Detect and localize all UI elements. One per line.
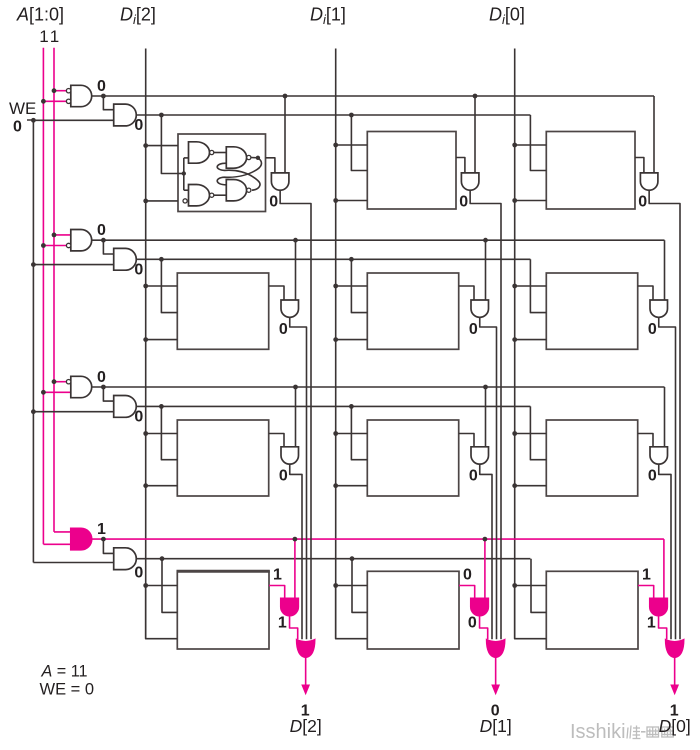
junction data top row2 col2 — [333, 284, 338, 289]
wire data tap bottom row3 col2 — [336, 485, 368, 487]
wire read wordline drop row1 col2 — [474, 96, 476, 173]
svg-text:0: 0 — [134, 117, 143, 134]
wire write enable into cell row3 col1 — [161, 406, 177, 459]
junction write wordline row3 col2 — [349, 404, 354, 409]
wire data tap top row2 col2 — [336, 285, 368, 287]
decoder AND gate row3 — [71, 376, 92, 397]
output OR gate D[2] — [296, 639, 315, 658]
wire read gate output to bitline row2 col1 — [290, 317, 307, 639]
wire A0 to row3 decoder top input — [54, 381, 66, 383]
junction data top row1 col1 — [143, 143, 148, 148]
junction data top row4 col2 — [333, 583, 338, 588]
read AND gate row2 col3 — [650, 300, 668, 317]
junction data bottom row2 col1 — [143, 337, 148, 342]
read AND gate row1 col2 — [461, 173, 479, 190]
decoder AND gate row1 — [71, 85, 92, 106]
wire read gate output to bitline row1 col1 — [280, 190, 311, 639]
junction write wordline row4 col2 — [350, 556, 355, 561]
wire data tap top row3 col2 — [336, 433, 368, 435]
latch internal N2 output bubble — [210, 193, 214, 197]
junction read wordline row3 col1 — [293, 385, 298, 390]
junction write wordline row4 col1 — [160, 556, 165, 561]
junction read wordline row2 col1 — [293, 238, 298, 243]
write wordline row2 — [136, 258, 530, 260]
latch internal: N2 to N4 wire — [214, 194, 227, 196]
wire data tap bottom row1 col2 — [336, 200, 368, 202]
latch internal N1 output bubble — [210, 150, 214, 154]
junction data top row3 col2 — [333, 431, 338, 436]
svg-text:0: 0 — [134, 409, 143, 426]
junction on WE row3 — [31, 409, 36, 414]
wire data tap bottom row2 col1 — [146, 339, 178, 341]
svg-text:0: 0 — [468, 615, 477, 632]
wire WE to row3 gate — [33, 411, 113, 413]
write wordline row4 — [136, 558, 530, 560]
junction on A0 row2 — [52, 233, 57, 238]
read AND gate row4 col1 — [281, 598, 299, 615]
svg-text:1: 1 — [273, 567, 282, 584]
svg-text:0: 0 — [463, 567, 472, 584]
write wordline row1 — [136, 114, 530, 116]
wire A1 to row2 decoder bottom input — [43, 245, 66, 247]
wire read wordline drop row4 col3 — [663, 539, 665, 598]
junction data top row2 col3 — [512, 284, 517, 289]
latch cell row1 col3 — [546, 132, 635, 210]
junction data top row3 col1 — [143, 431, 148, 436]
svg-text:WE: WE — [9, 99, 36, 118]
latch cell row3 col1 — [177, 420, 268, 496]
svg-text:0: 0 — [97, 222, 106, 239]
wire read gate output to bitline row3 col1 — [290, 464, 302, 639]
wire A0 into row4 decoder (elbow) — [54, 531, 71, 533]
read wordline row2 — [92, 239, 665, 241]
wire decoder to WE gate row1 — [103, 96, 113, 110]
svg-text:WE = 0: WE = 0 — [40, 681, 95, 699]
output arrow D[2] — [301, 658, 310, 696]
wire read gate output to bitline row2 col2 — [480, 317, 497, 639]
svg-text:Di[2]: Di[2] — [120, 5, 156, 28]
wire cell output row4 col1 — [269, 586, 285, 599]
wire A0 to row1 decoder top input — [54, 90, 66, 92]
read AND gate row3 col3 — [650, 447, 668, 464]
junction decoder output row3 — [101, 385, 106, 390]
wire data tap bottom row1 col3 — [515, 200, 547, 202]
junction data bottom row1 col2 — [333, 198, 338, 203]
latch cell row3 col3 — [546, 420, 637, 496]
wire cell output row2 col3 — [638, 286, 653, 300]
wire cell output row4 col2 — [459, 586, 475, 599]
svg-text:0: 0 — [134, 565, 143, 582]
svg-text:D[0]: D[0] — [659, 716, 691, 736]
wire decoder to WE gate row3 — [103, 387, 113, 401]
latch internal: Q junction — [256, 156, 260, 160]
wire A1 to row3 decoder bottom input — [43, 391, 70, 393]
wire write enable into cell row3 col3 — [530, 406, 546, 459]
junction data bottom row1 col1 — [143, 199, 148, 204]
wire A1 into row4 decoder (elbow) — [43, 543, 70, 545]
svg-text:D[2]: D[2] — [290, 716, 322, 736]
wire read gate output to OR row4 col1 — [290, 616, 298, 640]
svg-text:0: 0 — [279, 468, 288, 485]
wire read wordline drop row1 col3 — [653, 96, 655, 173]
output arrow D[1] — [491, 658, 500, 696]
svg-text:0: 0 — [269, 194, 278, 211]
svg-text:Isshiki: Isshiki — [570, 721, 626, 743]
latch internal: enable entry — [178, 173, 184, 175]
svg-text:1: 1 — [278, 615, 287, 632]
junction on A1 row3 — [41, 390, 46, 395]
latch cell row4 col2 — [367, 571, 459, 649]
wire read wordline drop row2 col2 — [485, 240, 487, 300]
svg-text:A = 11: A = 11 — [41, 663, 88, 681]
junction read wordline row2 col2 — [483, 238, 488, 243]
svg-text:A[1:0]: A[1:0] — [16, 5, 64, 25]
watermark glyph 3 — [662, 727, 674, 737]
wire read gate output to bitline row1 col2 — [470, 190, 501, 639]
junction on A0 row3 — [52, 379, 57, 384]
wire data line end into cell row4 col2 — [336, 586, 368, 639]
svg-text:Di[1]: Di[1] — [310, 5, 346, 28]
write-enable AND gate row1 — [114, 104, 137, 126]
junction data bottom row3 col2 — [333, 483, 338, 488]
wire cell output row2 col1 — [269, 286, 284, 300]
wire cell output row3 col1 — [269, 434, 284, 447]
latch internal NAND N3 (Q gate) — [226, 147, 246, 168]
svg-text:1: 1 — [97, 521, 106, 538]
junction data bottom row2 col3 — [512, 337, 517, 342]
read AND gate row4 col2 — [471, 598, 489, 615]
svg-text:0: 0 — [459, 194, 468, 211]
wire write enable into cell row3 col2 — [351, 406, 367, 459]
wire data tap bottom row3 col1 — [146, 485, 178, 487]
wire WE to row4 gate (elbow) — [33, 562, 113, 564]
svg-text:D[1]: D[1] — [480, 716, 512, 736]
latch cell row4 col1 — [177, 571, 270, 649]
wire read gate output to bitline row3 col2 — [480, 464, 492, 639]
wire decoder to WE gate row2 — [103, 240, 113, 254]
latch internal N2 input bubble — [183, 199, 187, 203]
latch internal: enable to N1 — [184, 157, 189, 159]
wire read gate output to bitline row2 col3 — [659, 317, 676, 639]
write-enable AND gate row2 — [114, 248, 137, 270]
wire A1 to row1 decoder bottom input — [43, 100, 66, 102]
junction on WE row1 — [31, 118, 36, 123]
wire data tap top row2 col3 — [515, 285, 547, 287]
wire data tap top row4 col2 — [336, 585, 368, 587]
latch internal N3 output bubble — [247, 155, 251, 159]
wire decoder to WE gate row4 — [103, 539, 113, 553]
svg-text:0: 0 — [97, 78, 106, 95]
junction data top row1 col3 — [512, 143, 517, 148]
latch cell row2 col3 — [546, 273, 637, 349]
output arrow D[0] — [670, 658, 679, 696]
wire cell output row1 col1 — [266, 158, 275, 173]
wire read wordline drop row4 col1 — [294, 539, 296, 598]
latch cell row1 col1 — [178, 134, 266, 212]
junction decoder output row2 — [101, 238, 106, 243]
wire write enable into cell row1 col3 — [530, 115, 546, 171]
wire write enable into cell row2 col3 — [530, 259, 546, 312]
junction on A1 row2 — [41, 243, 46, 248]
latch internal N4 output bubble — [247, 188, 251, 192]
wire write enable into cell row1 col1 — [161, 115, 178, 174]
latch internal: cross-couple Q to N4 — [217, 158, 261, 185]
wire write enable into cell row4 col1 — [162, 559, 177, 613]
read AND gate row3 col2 — [471, 447, 489, 464]
wire data tap top row4 col1 — [146, 585, 178, 587]
read AND gate row1 col3 — [640, 173, 658, 190]
wire data tap bottom row1 col1 — [146, 200, 178, 202]
wire read gate output to bitline row3 col3 — [659, 464, 671, 639]
svg-text:0: 0 — [134, 262, 143, 279]
junction read wordline row3 col2 — [483, 385, 488, 390]
junction data top row4 col1 — [143, 583, 148, 588]
decoder AND gate row2 — [71, 230, 92, 251]
wire read wordline drop row3 col2 — [485, 387, 487, 447]
wire data tap top row2 col1 — [146, 285, 178, 287]
junction read wordline row4 col2 — [483, 537, 488, 542]
junction read wordline row1 col2 — [473, 94, 478, 99]
write-enable AND gate row4 — [114, 548, 137, 570]
junction write wordline row1 col1 — [159, 113, 164, 118]
address line A1 (=1) — [42, 48, 44, 545]
read wordline row4 — [92, 538, 664, 540]
wire read wordline drop row3 col3 — [664, 387, 666, 447]
wire data tap bottom row2 col2 — [336, 339, 368, 341]
wire read gate output to OR row4 col2 — [480, 616, 488, 640]
latch internal: Q wire to junction — [251, 157, 258, 159]
junction data top row1 col2 — [333, 143, 338, 148]
latch internal: enable rail — [183, 158, 185, 190]
svg-text:1: 1 — [39, 27, 48, 46]
wire data tap top row3 col1 — [146, 433, 178, 435]
svg-text:0: 0 — [648, 321, 657, 338]
latch cell row2 col2 — [367, 273, 458, 349]
wire cell output row3 col3 — [638, 434, 653, 447]
wire write enable into cell row4 col3 — [531, 559, 546, 613]
junction data bottom row3 col1 — [143, 483, 148, 488]
junction read wordline row4 col1 — [293, 537, 298, 542]
latch internal: enable to N2 — [184, 189, 189, 191]
data line Di[2] — [145, 49, 147, 639]
write wordline row3 — [136, 405, 530, 407]
wire data tap top row3 col3 — [515, 433, 547, 435]
svg-text:0: 0 — [638, 194, 647, 211]
latch internal NAND N2 (data-bar gate) — [189, 185, 210, 206]
data line Di[1] — [335, 49, 337, 639]
wire WE to row1 gate — [33, 119, 113, 121]
wire data tap top row4 col3 — [515, 585, 547, 587]
latch cell row2 col1 — [177, 273, 268, 349]
junction data bottom row2 col2 — [333, 337, 338, 342]
svg-text:0: 0 — [97, 369, 106, 386]
svg-text:1: 1 — [647, 615, 656, 632]
wire read gate output to OR row4 col3 — [659, 616, 667, 640]
junction data bottom row1 col3 — [512, 198, 517, 203]
wire read wordline drop row2 col1 — [295, 240, 297, 300]
write-enable AND gate row3 — [114, 396, 137, 418]
latch cell row4 col3 — [546, 571, 638, 649]
junction write wordline row2 col2 — [349, 257, 354, 262]
wire read gate output to bitline row1 col3 — [649, 190, 680, 639]
latch internal: junction enable — [182, 171, 186, 175]
read AND gate row4 col3 — [650, 598, 668, 615]
decoder AND gate row4 — [71, 528, 92, 549]
read wordline row3 — [92, 386, 665, 388]
wire data tap top row1 col2 — [336, 144, 368, 146]
wire WE to row2 gate — [33, 264, 113, 266]
output OR gate D[0] — [665, 639, 684, 658]
svg-text:1: 1 — [50, 27, 59, 46]
WE wire — [27, 120, 33, 563]
wire cell output row1 col3 — [635, 158, 644, 173]
latch internal NAND N1 (data gate) — [189, 142, 210, 163]
svg-text:Di[0]: Di[0] — [489, 5, 525, 28]
read AND gate row2 col2 — [471, 300, 489, 317]
svg-text:1: 1 — [642, 567, 651, 584]
wire read wordline drop row2 col3 — [664, 240, 666, 300]
wire write enable into cell row2 col1 — [161, 259, 177, 312]
wire data tap bottom row3 col3 — [515, 485, 547, 487]
read AND gate row1 col1 — [271, 173, 289, 190]
junction on A0 row1 — [52, 88, 57, 93]
read AND gate row2 col1 — [281, 300, 299, 317]
read AND gate row3 col1 — [281, 447, 299, 464]
wire data line end into cell row4 col3 — [515, 586, 547, 639]
wire data tap bottom row2 col3 — [515, 339, 547, 341]
output OR gate D[1] — [486, 639, 505, 658]
wire cell output row1 col2 — [456, 158, 465, 173]
read wordline row1 — [92, 95, 654, 97]
inverting bubble row1 bottom input — [66, 99, 70, 103]
watermark glyph 1 — [627, 726, 641, 739]
latch internal NAND N4 (Qbar gate) — [226, 180, 246, 201]
svg-text:0: 0 — [13, 119, 22, 136]
address line A0 (=1) — [53, 48, 55, 532]
wire A0 to row2 decoder top input — [54, 234, 71, 236]
latch internal: N1 to N3 wire — [214, 152, 227, 154]
junction data top row2 col1 — [143, 284, 148, 289]
wire write enable into cell row1 col2 — [351, 115, 367, 171]
inverting bubble row1 top input — [66, 89, 70, 93]
wire cell output row3 col2 — [459, 434, 474, 447]
wire write enable into cell row4 col2 — [352, 559, 367, 613]
svg-text:0: 0 — [469, 468, 478, 485]
wire read wordline drop row4 col2 — [484, 539, 486, 598]
inverting bubble row3 top input — [66, 380, 70, 384]
junction decoder output row4 — [101, 537, 106, 542]
svg-text:0: 0 — [279, 321, 288, 338]
wire data tap top row1 col3 — [515, 144, 547, 146]
junction data top row4 col3 — [512, 583, 517, 588]
latch internal: cross-couple Qbar to N3 — [217, 163, 260, 190]
junction read wordline row1 col1 — [283, 94, 288, 99]
junction decoder output row1 — [101, 94, 106, 99]
junction write wordline row2 col1 — [159, 257, 164, 262]
wire cell output row2 col2 — [459, 286, 474, 300]
svg-text:0: 0 — [648, 468, 657, 485]
wire read wordline drop row1 col1 — [284, 96, 286, 173]
data line Di[0] — [514, 49, 516, 639]
watermark glyph 2 — [647, 727, 659, 737]
wire data line end into cell row4 col1 — [146, 586, 178, 639]
junction data bottom row3 col3 — [512, 483, 517, 488]
wire read wordline drop row3 col1 — [295, 387, 297, 447]
wire data tap top row1 col1 — [146, 145, 178, 147]
junction on A1 row1 — [41, 99, 46, 104]
watermark dash — [641, 731, 646, 733]
wire write enable into cell row2 col2 — [351, 259, 367, 312]
wire cell output row4 col3 — [638, 586, 654, 599]
latch cell row1 col2 — [367, 132, 456, 210]
latch cell row3 col2 — [367, 420, 458, 496]
junction write wordline row1 col2 — [349, 113, 354, 118]
junction data top row3 col3 — [512, 431, 517, 436]
junction write wordline row3 col1 — [159, 404, 164, 409]
inverting bubble row2 bottom input — [66, 243, 70, 247]
svg-text:0: 0 — [469, 321, 478, 338]
junction on WE row2 — [31, 262, 36, 267]
